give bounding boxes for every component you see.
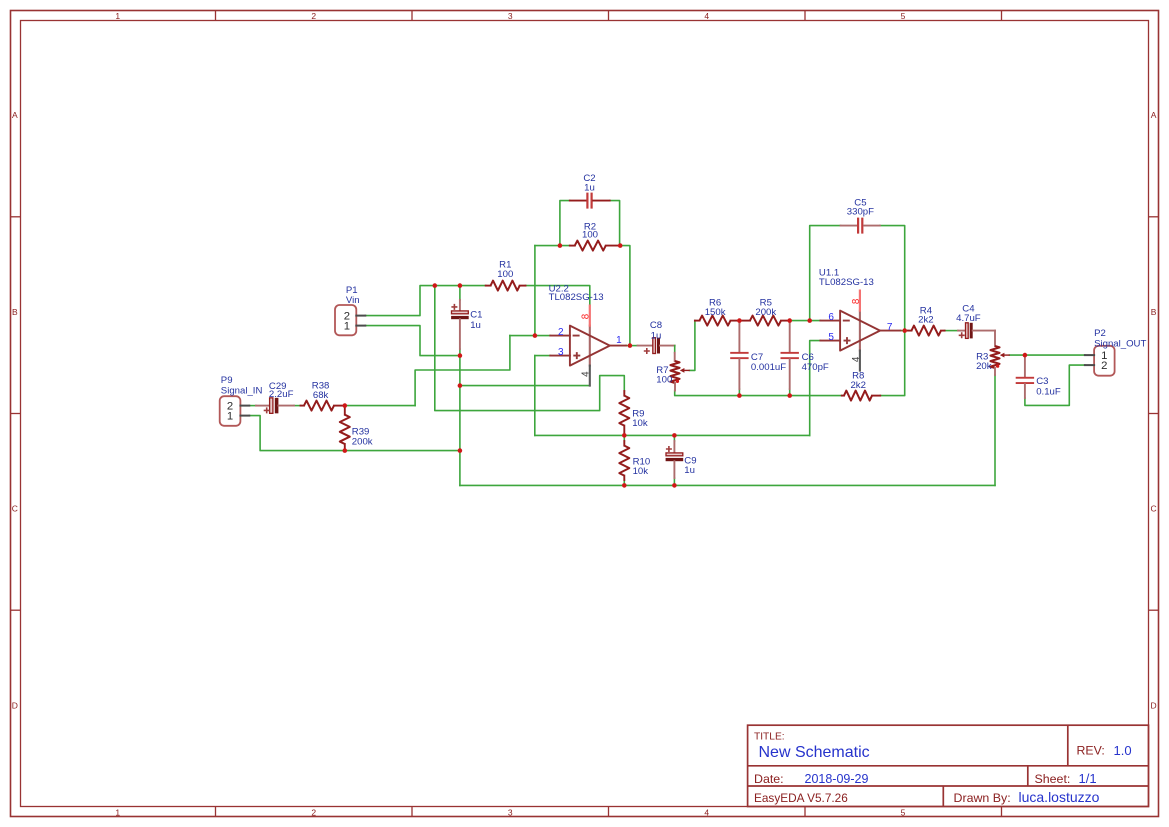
svg-text:200k: 200k <box>755 307 776 318</box>
wire node to U2.2 pin4 <box>460 385 590 387</box>
svg-text:68k: 68k <box>313 390 329 401</box>
svg-text:TL082SG-13: TL082SG-13 <box>819 277 874 288</box>
svg-text:1: 1 <box>115 807 120 817</box>
junction R38-R39 <box>343 403 348 408</box>
svg-text:10k: 10k <box>632 418 648 429</box>
svg-text:A: A <box>12 110 18 120</box>
svg-text:REV:: REV: <box>1077 744 1105 758</box>
wire R1 node down and over to R9 <box>435 286 625 411</box>
wire C1 bottom to node <box>459 349 461 356</box>
junction R9-R10 <box>622 433 627 438</box>
wire U1.1 pin5 wire <box>810 341 821 436</box>
wire R8 right up to U1.1 out <box>880 331 905 396</box>
capacitor C5 <box>841 198 880 234</box>
svg-text:C1: C1 <box>470 310 482 321</box>
junction gnd left <box>458 448 463 453</box>
op-amp U1.1 <box>819 268 901 371</box>
wire R39 bottom rail <box>345 450 460 452</box>
svg-text:B: B <box>1151 307 1157 317</box>
wire C1 top lead <box>459 286 461 300</box>
svg-text:5: 5 <box>901 807 906 817</box>
resistor R9 <box>619 391 648 435</box>
wire U2.2 pin3 down <box>534 356 536 436</box>
svg-text:4.7uF: 4.7uF <box>956 313 981 324</box>
frame row letters <box>12 110 1157 710</box>
junction R2 right <box>618 243 623 248</box>
svg-text:100: 100 <box>497 269 513 280</box>
wire ground rail bottom <box>460 484 995 486</box>
svg-text:2: 2 <box>558 327 564 338</box>
plus mark <box>264 407 270 413</box>
junction U1.1 pin6 <box>807 318 812 323</box>
svg-text:100: 100 <box>582 230 598 241</box>
svg-text:7: 7 <box>887 322 893 333</box>
svg-text:2: 2 <box>311 807 316 817</box>
svg-text:200k: 200k <box>352 436 373 447</box>
op-amp U2.2 <box>549 283 626 385</box>
resistor R38 <box>301 381 345 411</box>
wire U2.2 output to C8 <box>626 345 638 347</box>
svg-text:2.2uF: 2.2uF <box>269 389 294 400</box>
plus mark <box>451 304 457 310</box>
svg-text:luca.lostuzzo: luca.lostuzzo <box>1019 789 1100 805</box>
svg-text:1: 1 <box>344 320 350 332</box>
wire R3 wiper to P2 pin1 <box>1010 354 1085 356</box>
capacitor C2 <box>570 173 610 209</box>
svg-text:0.001uF: 0.001uF <box>751 362 786 373</box>
svg-text:0.1uF: 0.1uF <box>1036 386 1061 397</box>
svg-text:10k: 10k <box>633 466 649 477</box>
svg-text:5: 5 <box>901 11 906 21</box>
junction C1 top <box>458 283 463 288</box>
svg-text:2: 2 <box>311 11 316 21</box>
junction U2.2 pin2 <box>533 333 538 338</box>
wire C1 node down <box>459 356 461 486</box>
wire R2 left net vertical <box>534 246 536 336</box>
svg-text:D: D <box>12 700 18 710</box>
potentiometer R3 <box>976 346 1010 375</box>
svg-text:5: 5 <box>828 332 834 343</box>
wire R2 right to output <box>620 246 630 346</box>
wire C9 bottom link <box>673 478 675 485</box>
wire C5 left leg <box>810 226 841 321</box>
wire C29 to R38 <box>294 405 301 407</box>
junction C9 top <box>672 433 677 438</box>
capacitor C3 <box>1016 355 1061 398</box>
svg-text:100: 100 <box>656 375 672 386</box>
svg-text:A: A <box>1151 110 1157 120</box>
junction U1.1 output <box>902 328 907 333</box>
svg-text:B: B <box>12 307 18 317</box>
wire R3 bottom down <box>994 375 996 485</box>
svg-text:EasyEDA V5.7.26: EasyEDA V5.7.26 <box>754 791 848 805</box>
junction R10 bottom <box>622 483 627 488</box>
wire R2 left link <box>535 245 570 247</box>
svg-text:1u: 1u <box>684 465 695 476</box>
wire P1 pin2 to R1 rail <box>365 286 485 316</box>
potentiometer R7 <box>656 361 690 391</box>
wire C3 bottom path <box>1025 365 1085 405</box>
wire C9 top link <box>673 435 675 441</box>
junction R2 left <box>558 243 563 248</box>
junction R3 wiper C3 <box>1023 353 1028 358</box>
svg-text:Drawn By:: Drawn By: <box>954 791 1011 805</box>
svg-text:D: D <box>1151 700 1157 710</box>
svg-text:3: 3 <box>558 347 564 358</box>
junction R39 bottom <box>343 448 348 453</box>
wire C2 left leg <box>560 201 570 246</box>
resistor R1 <box>486 260 526 291</box>
svg-text:1: 1 <box>227 410 233 422</box>
svg-text:330pF: 330pF <box>847 207 874 218</box>
junction C1 bottom P1 <box>458 353 463 358</box>
svg-text:New Schematic: New Schematic <box>759 744 870 761</box>
frame column numbers <box>115 11 905 817</box>
svg-text:1/1: 1/1 <box>1079 771 1097 786</box>
wire R7 bottom to rail <box>675 391 842 396</box>
resistor R10 <box>619 441 650 480</box>
svg-text:2: 2 <box>1101 360 1107 372</box>
resistor R4 <box>908 306 945 336</box>
capacitor C6 <box>781 321 829 389</box>
wire C2 right leg <box>610 201 620 246</box>
resistor R5 <box>739 297 789 325</box>
wire pin2 path down-left <box>415 336 510 406</box>
svg-text:6: 6 <box>828 312 834 323</box>
title block <box>748 725 1149 806</box>
svg-text:1u: 1u <box>470 320 481 331</box>
svg-text:2k2: 2k2 <box>918 315 933 326</box>
wire C6 bottom link <box>789 389 791 396</box>
wire R4 to C4 <box>945 330 958 332</box>
svg-text:470pF: 470pF <box>802 362 829 373</box>
junction C9 bottom <box>672 483 677 488</box>
wire P1 pin1 to C1 bottom node <box>365 326 457 356</box>
svg-text:4: 4 <box>851 356 862 362</box>
wire R10 bottom link <box>623 480 625 485</box>
svg-text:4: 4 <box>581 371 592 377</box>
wire R10 top link <box>623 435 625 441</box>
svg-text:3: 3 <box>508 11 513 21</box>
wiper arrow <box>683 369 690 371</box>
svg-text:4: 4 <box>704 807 709 817</box>
svg-text:TL082SG-13: TL082SG-13 <box>549 292 604 303</box>
plus mark <box>666 446 672 452</box>
svg-text:Vin: Vin <box>346 295 360 306</box>
junction C6 bottom <box>787 393 792 398</box>
wire pin3 node rail <box>535 434 810 436</box>
resistor R2 <box>570 222 620 251</box>
capacitor C8 <box>638 320 675 361</box>
svg-text:C: C <box>12 504 18 514</box>
svg-text:TITLE:: TITLE: <box>754 732 785 743</box>
svg-text:150k: 150k <box>705 307 726 318</box>
resistor R6 <box>695 297 740 325</box>
capacitor C4 <box>956 303 995 346</box>
svg-text:1: 1 <box>115 11 120 21</box>
svg-text:2k2: 2k2 <box>850 380 865 391</box>
junction pin4 net <box>458 383 463 388</box>
svg-text:1.0: 1.0 <box>1114 743 1132 758</box>
wire R1 to U2.2 pin8 <box>526 286 590 306</box>
resistor R8 <box>842 371 880 401</box>
wire P9 pin2 to C29 <box>249 405 256 407</box>
wire U2.2 pin3 stub wire <box>535 355 551 357</box>
plus mark <box>644 348 650 354</box>
connector P2 <box>1085 328 1147 375</box>
svg-text:1: 1 <box>616 335 622 346</box>
svg-text:C: C <box>1151 504 1157 514</box>
wire R38 node to pin2 path <box>345 405 415 407</box>
svg-text:1u: 1u <box>584 183 595 194</box>
connector P1 <box>335 285 365 336</box>
wire P9 pin1 to R39 bottom <box>249 416 344 451</box>
junction C7 bottom <box>737 393 742 398</box>
svg-text:8: 8 <box>581 313 592 319</box>
wire R6 left to R7 wiper <box>690 321 695 371</box>
plus mark <box>959 332 965 338</box>
connector P9 <box>220 375 263 426</box>
wire R5 right to U1.1 pin6 <box>790 320 821 322</box>
wire C5 right leg <box>880 226 905 331</box>
capacitor C1 <box>451 300 482 349</box>
capacitor C7 <box>730 321 786 389</box>
svg-text:Signal_IN: Signal_IN <box>221 385 263 396</box>
junction U2.2 output <box>628 343 633 348</box>
resistor R39 <box>340 406 373 451</box>
svg-text:1u: 1u <box>651 330 662 341</box>
svg-text:8: 8 <box>851 298 862 304</box>
svg-text:20k: 20k <box>976 361 992 372</box>
svg-text:4: 4 <box>704 11 709 21</box>
wiper arrow <box>1003 354 1010 356</box>
wire C7 bottom link <box>738 389 740 396</box>
junction R6-R5-C7 <box>737 318 742 323</box>
svg-text:2018-09-29: 2018-09-29 <box>805 772 869 786</box>
wire U2.2 pin2 wire <box>510 335 550 337</box>
capacitor C29 <box>256 381 294 414</box>
svg-text:Signal_OUT: Signal_OUT <box>1094 339 1146 350</box>
capacitor C9 <box>666 441 697 478</box>
svg-text:Sheet:: Sheet: <box>1035 772 1071 786</box>
junction R5-C6 <box>787 318 792 323</box>
wire U1.1 out to R4 <box>901 330 909 332</box>
svg-text:3: 3 <box>508 807 513 817</box>
svg-text:Date:: Date: <box>754 772 784 786</box>
junction R1-C1v-node <box>433 283 438 288</box>
